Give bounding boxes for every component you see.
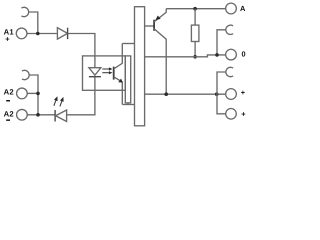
wire collector to amplifier bbox=[122, 43, 134, 45]
terminal plus upper bbox=[226, 89, 237, 100]
rail 0V bbox=[145, 55, 226, 57]
diode D1 bbox=[57, 28, 67, 39]
terminal A2 upper bbox=[17, 88, 28, 99]
wire resistor top bbox=[194, 9, 196, 25]
opto LED cathode bar bbox=[89, 76, 101, 78]
wire block stub bbox=[127, 103, 129, 105]
LED indicator cathode bar bbox=[54, 110, 56, 122]
wire base to Q1 bbox=[145, 25, 155, 27]
terminal A2 lower bbox=[17, 109, 28, 120]
wire diode to opto LED anode bbox=[68, 34, 95, 68]
opto light arrows bbox=[102, 69, 109, 73]
node resistor bottom bbox=[193, 55, 197, 59]
node bracket plus rail bbox=[215, 92, 219, 96]
node collector plus rail bbox=[164, 92, 168, 96]
terminal A1 bbox=[16, 28, 27, 39]
node A2 upper junction bbox=[36, 92, 40, 96]
svg-text:0: 0 bbox=[242, 50, 246, 59]
label minus lower bbox=[6, 119, 10, 121]
terminal 0 output bbox=[226, 49, 237, 60]
svg-text:A: A bbox=[240, 4, 246, 13]
bridge clip mid-left bbox=[22, 70, 29, 79]
node clip R1 bbox=[215, 53, 219, 57]
svg-text:A2: A2 bbox=[4, 87, 14, 96]
node resistor top bbox=[193, 7, 197, 11]
LED indicator light arrows bbox=[54, 101, 62, 107]
bridge clip right upper bbox=[226, 25, 233, 34]
terminal plus lower bbox=[226, 109, 237, 120]
component block beside opto bbox=[125, 56, 130, 103]
wire emitter to amplifier bbox=[122, 104, 134, 106]
wire A2 lower bbox=[27, 114, 55, 116]
opto LED triangle bbox=[89, 68, 101, 76]
label minus upper bbox=[6, 100, 10, 102]
node A2 lower junction bbox=[36, 113, 40, 117]
phototransistor collector bbox=[114, 44, 123, 69]
bridge clip top-left bbox=[21, 7, 28, 16]
transistor Q1 base bar bbox=[153, 20, 155, 31]
phototransistor emitter bbox=[114, 77, 123, 105]
optocoupler box bbox=[83, 56, 126, 90]
amplifier block bbox=[135, 7, 145, 126]
phototransistor T1 base bar bbox=[113, 67, 115, 80]
LED indicator triangle bbox=[56, 110, 67, 122]
wire clip R1 stub bbox=[217, 30, 226, 55]
top rail to terminal A bbox=[166, 8, 226, 10]
transistor Q1 collector bbox=[154, 29, 166, 94]
resistor R1 bbox=[191, 25, 199, 41]
bridge clip right lower bbox=[226, 67, 233, 76]
wire LED to opto cathode bbox=[67, 77, 95, 115]
wire clip L1 to A1 node bbox=[29, 12, 38, 34]
node A1 junction bbox=[36, 32, 40, 36]
terminal A output bbox=[226, 3, 237, 14]
svg-text:A2: A2 bbox=[4, 110, 14, 119]
svg-text:+: + bbox=[5, 35, 10, 44]
rail plus supply bbox=[145, 93, 226, 95]
wire clip L2 down A2 rail bbox=[29, 75, 38, 115]
svg-text:+: + bbox=[241, 88, 246, 97]
wire A1 to diode bbox=[27, 33, 57, 35]
transistor Q1 emitter bbox=[154, 9, 166, 22]
svg-text:+: + bbox=[241, 109, 246, 118]
wire clip R2 bracket bbox=[217, 72, 226, 114]
wire A2 upper bbox=[27, 92, 38, 94]
wire resistor bottom bbox=[194, 42, 196, 57]
